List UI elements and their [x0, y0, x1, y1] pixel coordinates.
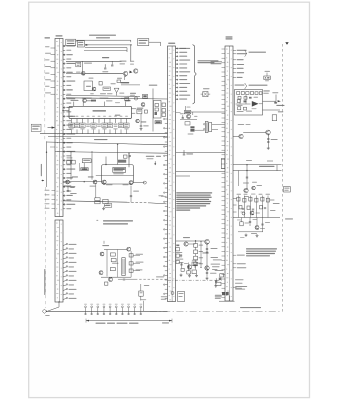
- J2 bottom side box: [178, 292, 185, 302]
- dimension bracket: [200, 241, 202, 267]
- small glyphs near shield: [272, 92, 278, 93]
- connector J2 left pins lower: [165, 118, 168, 120]
- dark value text: [121, 82, 130, 83]
- connector J3 body: [225, 46, 233, 301]
- module pin circle right: [129, 181, 133, 185]
- ground G2: [103, 207, 105, 209]
- IC U1 top pin stubs: [73, 102, 75, 107]
- box TOP: [99, 82, 102, 86]
- label 1u6: [104, 205, 110, 206]
- parts x188.6: [188, 263, 190, 271]
- transistor Q15: [252, 186, 256, 190]
- dimension caption: [96, 323, 106, 324]
- wire top bus 2: [85, 47, 127, 49]
- transistor Q17: [242, 212, 245, 215]
- stub from J2: [176, 112, 181, 114]
- connector J1 label A-A: [56, 35, 63, 36]
- transistor Q13: [239, 134, 243, 138]
- extra parts bottom-mid: [181, 268, 184, 271]
- transistor Q18: [100, 252, 104, 256]
- transistor Q2: [123, 71, 127, 75]
- shield dashed line right: [282, 44, 284, 311]
- wire v x106 into module: [105, 157, 107, 165]
- label tuner: [259, 166, 275, 167]
- ladder rail: [87, 310, 168, 312]
- ground G4: [267, 147, 269, 149]
- wire v from Q7 down: [95, 184, 97, 198]
- wire v x277: [276, 165, 278, 171]
- capacitor C12: [111, 61, 113, 64]
- IC U1 bottom pins and label row: [71, 119, 73, 124]
- box MTR: [103, 87, 111, 90]
- net name lower bracket: [249, 85, 268, 86]
- chain wire y280: [168, 279, 222, 281]
- IF coupling cluster wire top: [185, 106, 187, 111]
- wire v x117.6 into module: [117, 145, 119, 165]
- connector J2 body: [168, 46, 176, 302]
- arrow mark left margin: [41, 180, 44, 182]
- amp block resistors: [237, 92, 240, 95]
- dimension tick: [78, 163, 80, 171]
- transistor Q1a: [81, 71, 85, 75]
- text A2011: [215, 296, 222, 297]
- boxed label TRE: [76, 62, 81, 66]
- label 1h2: [188, 133, 194, 136]
- left margin solid rail: [46, 141, 48, 187]
- diode box 4148: [184, 111, 191, 114]
- J3 left lower parts: [215, 270, 224, 271]
- IC U1 top pin labels: [82, 98, 92, 99]
- connector J1 left stubs: [51, 47, 56, 49]
- sub-assembly box: [154, 101, 162, 119]
- note text 2 lines: [96, 220, 98, 221]
- wire right of module row: [133, 182, 145, 184]
- transistor Q8: [184, 242, 188, 246]
- tick segment: [267, 160, 273, 162]
- wire J2 top to J3 top: [176, 47, 186, 49]
- boxed label RD/C.Dev: [138, 39, 149, 46]
- part box BA5: [143, 94, 148, 98]
- part box mid: [137, 109, 142, 113]
- connector J2 right pin labels upper: [176, 48, 179, 50]
- wire v x107: [106, 250, 108, 277]
- bus line D: [55, 152, 168, 154]
- cluster resistor grid row1: [237, 197, 240, 201]
- connector J3 left stubs: [222, 48, 226, 50]
- wire v x117.6 lower: [117, 250, 119, 278]
- IC U1 right stubs: [132, 108, 137, 110]
- capacitor C20 at strip: [67, 187, 69, 191]
- grounds mid cluster: [180, 274, 182, 276]
- IF transformer T30: [205, 122, 208, 133]
- IC U1 bottom pin drop wires: [71, 129, 73, 133]
- wire top bus 3: [84, 49, 127, 51]
- wire below Q2: [123, 76, 125, 80]
- dimension arrow line: [86, 320, 172, 322]
- wire from PC3 down: [83, 163, 85, 170]
- bracket note text: [198, 60, 219, 61]
- wire top bus 1: [85, 44, 131, 46]
- boxed label top-left A: [66, 39, 76, 45]
- module pin circle left: [102, 180, 106, 184]
- J3 right lower rows: [233, 254, 236, 256]
- left column parts: [176, 245, 179, 247]
- crystal Y1: [203, 92, 208, 97]
- arrow into connector J1: [48, 127, 55, 129]
- affiliates text above chain: [240, 307, 261, 308]
- capacitor C16: [140, 114, 142, 125]
- transistor Q1b: [92, 87, 96, 91]
- resistor chain mid column: [110, 253, 115, 256]
- labels under bus D: [146, 156, 155, 157]
- label NTT: [90, 93, 94, 94]
- wire from label to J2: [149, 41, 161, 43]
- text left of J3: [211, 61, 223, 62]
- bus line B under IC: [48, 135, 168, 137]
- caps under Q11: [206, 270, 208, 276]
- ground G3: [206, 277, 208, 279]
- corner wire x82.3: [81, 61, 83, 73]
- arrow mark under bus: [154, 161, 156, 164]
- components under bus - box pair 1: [67, 160, 70, 164]
- transistor Q4 dark: [141, 103, 145, 107]
- labels right bottom LAD7: [215, 295, 222, 296]
- parts above x181: [181, 263, 183, 269]
- wire right of J3 y287: [233, 286, 237, 288]
- amp block box: [235, 90, 263, 116]
- label TLD: [89, 78, 94, 79]
- ground G1: [140, 127, 142, 129]
- wire v x92: [91, 153, 93, 179]
- labels Gask GPXG: [120, 61, 127, 62]
- module dark title box: [113, 168, 126, 173]
- wire h y84.9: [121, 84, 140, 86]
- sub box Twist: [84, 81, 93, 91]
- left margin dashed rail lower: [45, 187, 47, 308]
- top note text: [89, 35, 116, 36]
- cluster lower parts: [240, 222, 243, 226]
- label U VOLT: [84, 63, 92, 64]
- connector J1-lower body: [55, 220, 63, 302]
- wire y112 to J3: [191, 111, 225, 113]
- right paragraph 4 lines: [246, 248, 277, 249]
- capacitor C11: [104, 64, 106, 67]
- transistor Q5: [136, 119, 140, 123]
- brace net-group bracket: [193, 45, 197, 105]
- IC U1 part number: [93, 110, 107, 111]
- amp block small parts: [237, 100, 240, 103]
- boxes x192-197: [192, 262, 197, 265]
- bus line A under IC: [40, 133, 168, 135]
- rotated net text mid-left: [41, 164, 42, 176]
- wire vertical x153: [152, 89, 154, 132]
- IC U1 left stub to J1: [63, 110, 69, 112]
- dark arrow near Q2: [129, 71, 132, 74]
- transistor Q19: [127, 247, 131, 251]
- amp out arrowhead: [278, 100, 281, 102]
- dark box pair bottom: [222, 292, 225, 295]
- bus line C: [47, 142, 168, 145]
- capacitor C21 on wire: [130, 186, 132, 203]
- wires T30 to J3: [212, 124, 225, 126]
- shield tall rect on J3: [221, 159, 224, 169]
- connector J3 label: [226, 36, 233, 37]
- top wire lower-left: [104, 249, 127, 251]
- transistor Q6 row: [66, 180, 70, 184]
- J3 right rows mid: [235, 85, 245, 86]
- row of part labels y93: [100, 93, 106, 94]
- pin cluster right of bus: [125, 97, 129, 101]
- bottom wire lower-left: [101, 276, 131, 278]
- labels right lower-left: [136, 254, 144, 255]
- cap C30: [182, 115, 184, 119]
- label MTBF: [111, 83, 116, 84]
- net bracket right of J3: [245, 50, 248, 57]
- bus label mid: [94, 139, 108, 140]
- wire h y170.5: [233, 170, 282, 172]
- label T1R: [117, 78, 122, 79]
- connector J3 right pin rows upper: [233, 49, 236, 51]
- diamond node: [42, 309, 46, 313]
- connector J1-upper body: [55, 39, 63, 217]
- labels near wire y161: [246, 159, 252, 162]
- wire v x129 thick: [128, 153, 130, 168]
- connector J1 upper pins: [63, 45, 65, 47]
- transistor Q3: [134, 97, 137, 100]
- net label LPBS: [102, 57, 109, 58]
- amp block row2: [238, 96, 241, 99]
- lower bracket right of J3: [245, 83, 248, 89]
- labels near J3 y125: [238, 123, 245, 126]
- left margin vertical text: [44, 269, 45, 295]
- cluster grid row2: [239, 206, 242, 209]
- capacitor C15 on bus: [183, 150, 185, 154]
- J3 right rows y279-291: [235, 279, 244, 280]
- IF transformer tall box: [122, 258, 125, 276]
- dark rect pair: [190, 126, 194, 128]
- ladder end tap: [142, 301, 144, 312]
- left margin boxed note: [31, 124, 41, 131]
- cluster caps row: [242, 207, 244, 209]
- wire h y164.7: [233, 164, 282, 166]
- wire h y217.5: [233, 217, 280, 219]
- bus wire y96: [66, 95, 140, 96]
- labels right cluster: [273, 203, 280, 204]
- wire v x207 with caps: [206, 244, 208, 269]
- connector J1 lower pins: [63, 244, 67, 245]
- delay-line ladder: [85, 306, 87, 308]
- wire diamond to ladder: [47, 310, 87, 312]
- cluster mid labels: [270, 199, 275, 202]
- IC U1 pin label boxes: [69, 123, 74, 128]
- IC U1 sub label: [115, 115, 121, 116]
- J3 bottom close wire: [219, 300, 235, 302]
- connector J2 label: [168, 43, 175, 44]
- row labels below transistors: [64, 185, 72, 186]
- right column boxes: [129, 254, 133, 257]
- resistor R12 box: [117, 80, 121, 83]
- left margin dashed rail upper: [44, 58, 46, 140]
- module M1 rounded box: [102, 165, 134, 185]
- wire stub row y152 strip: [50, 146, 55, 148]
- wire from J1 bottom: [58, 302, 60, 307]
- box at shield left: [272, 115, 277, 121]
- transistor Q10: [187, 265, 191, 269]
- junction dots: [130, 44, 131, 45]
- module label above: [118, 160, 126, 163]
- wire h y132.5: [243, 132, 265, 134]
- wires J2 to J3 region: [176, 151, 225, 153]
- wire v x71: [70, 153, 72, 180]
- wire through module: [96, 174, 134, 176]
- transistor Q14: [244, 188, 248, 192]
- vert part HXP: [140, 284, 142, 291]
- top note bracket line: [76, 39, 131, 41]
- label e30: [194, 115, 197, 118]
- row labels above transistors: [72, 176, 78, 177]
- right label box at shield: [284, 187, 291, 193]
- labels left of J2 bottom: [161, 296, 168, 297]
- resistor column right: [162, 103, 166, 107]
- transistor Q12: [266, 130, 271, 135]
- cluster vertical wires: [238, 196, 240, 218]
- boxed label 2u2: [105, 204, 112, 208]
- bus wire y98.5 long: [66, 98, 168, 99]
- component at right edge: [215, 280, 217, 283]
- label LDE2: [102, 245, 109, 246]
- cluster stubs from J3: [233, 198, 237, 200]
- IC U1 box: [69, 106, 132, 118]
- label TM: [180, 112, 184, 115]
- label #TTM: [276, 105, 284, 106]
- page number triangle: [285, 42, 288, 45]
- transistor Q16 dark: [250, 211, 254, 215]
- net name after bracket: [249, 52, 267, 53]
- transistor Q30: [187, 115, 191, 119]
- stub label near J2 left: [159, 195, 164, 196]
- wire v x238.5 right-mid: [238, 171, 240, 187]
- long note paragraph: [176, 192, 212, 193]
- transistor Q11: [205, 266, 209, 270]
- wire top mid cluster: [176, 240, 205, 242]
- wire h y73.4: [66, 72, 123, 74]
- varicap triangle symbol: [114, 88, 119, 92]
- left margin label 47c: [45, 37, 51, 38]
- RC cluster above module: [124, 155, 128, 158]
- transistor Q9: [205, 240, 210, 245]
- wire h y61.5: [66, 60, 122, 62]
- connector J1 mid-left labels: [52, 190, 56, 192]
- bottom small boxes: [192, 270, 196, 274]
- wire drop from top bus: [130, 45, 132, 61]
- wire v x268.5 caps: [267, 135, 269, 147]
- chain line y311.5: [150, 310, 283, 312]
- wires out of amp block: [263, 100, 277, 102]
- label box PC3: [82, 159, 91, 163]
- op-amp triangle dark: [252, 101, 259, 107]
- J3 left lower labels: [213, 259, 222, 260]
- label C6xx: [183, 237, 190, 238]
- mid column resistor chain: [194, 244, 198, 248]
- box under Q30: [185, 122, 190, 125]
- module sub text: [113, 173, 124, 174]
- wire long y200.8 sloped: [63, 201, 127, 202]
- wire transistor row: [63, 181, 102, 183]
- ceramic filter part: [265, 70, 271, 73]
- labels right of row1: [130, 61, 134, 62]
- dark label strip: [81, 168, 88, 171]
- amp block wire internal: [236, 103, 251, 105]
- transistor Q20: [99, 271, 103, 275]
- boxed label top-left B: [77, 41, 84, 47]
- IC U1 internal pin marks: [70, 116, 73, 117]
- transistor Q7 row: [93, 180, 97, 184]
- labels near Q14: [243, 183, 249, 184]
- res box pair mid: [95, 198, 100, 201]
- part box C2: [144, 110, 147, 113]
- bottom circuit parts: [105, 282, 108, 285]
- cluster tiny labels: [237, 193, 242, 196]
- wire y119.5: [180, 119, 197, 121]
- transistor Q1c: [83, 99, 87, 103]
- J2 bottom pin circle: [171, 292, 174, 295]
- wire v x247: [246, 165, 248, 190]
- transistor Q2b: [134, 69, 138, 73]
- dark label 785B: [155, 121, 161, 124]
- labels right of amp box: [263, 90, 270, 91]
- wire y130.5: [195, 129, 205, 131]
